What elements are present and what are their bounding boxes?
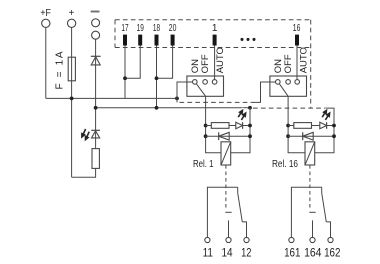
relay 1 subcircuit (193, 96, 252, 259)
svg-text:11: 11 (203, 247, 213, 260)
wire terminal 19 (125, 46, 140, 79)
contact 12 plate (242, 222, 246, 238)
resistor R2 body (211, 123, 229, 129)
svg-text:14: 14 (221, 247, 233, 260)
wire freewheel diode row relay 16 (288, 135, 334, 137)
svg-text:AUTO: AUTO (299, 47, 310, 73)
svg-text:19: 19 (137, 23, 144, 34)
wire contact 161 rail (291, 187, 321, 237)
LED3 emission arrow b (325, 113, 330, 120)
terminal 11 (205, 237, 210, 242)
svg-text:AUTO: AUTO (215, 47, 226, 73)
svg-text:+: + (68, 8, 74, 19)
wire relay 16 left branch (288, 126, 305, 153)
wire terminal 16 to AUTO (296, 46, 298, 80)
wire ON rail to S2 ON (255, 82, 276, 102)
junction relay 16 left resistor row (286, 124, 290, 128)
junction relay 1 left diode row (204, 134, 208, 138)
junction relay 1 left resistor row (204, 124, 208, 128)
wire relay 1 right branch (231, 108, 250, 153)
LED1 triangle (92, 131, 100, 138)
contact moving arm relay 16 (322, 193, 327, 222)
junction diode line to bus2 (94, 106, 98, 110)
svg-text:OFF: OFF (283, 54, 294, 73)
wire contact 11 rail (207, 187, 237, 237)
junction relay 16 right resistor row (332, 124, 336, 128)
wire freewheel diode row (206, 135, 250, 137)
terminal 1 pin (213, 35, 217, 46)
wire +F down (45, 28, 47, 99)
continuation dots (240, 38, 255, 41)
terminal 12 (244, 237, 249, 242)
svg-text:+F: +F (40, 8, 51, 19)
svg-text:1: 1 (212, 23, 218, 34)
terminal 17 pin (123, 35, 127, 46)
relay K16 coil (305, 142, 315, 165)
fuse F1 body (68, 57, 75, 81)
wire minus down (95, 39, 97, 148)
svg-text:164: 164 (304, 247, 322, 260)
wire contact 164 (312, 220, 314, 237)
LED3 cathode bar (326, 122, 328, 129)
wire terminal 20 (157, 46, 173, 79)
wire terminal 18 (156, 46, 158, 108)
dashed actuator linkage K16 (309, 165, 311, 210)
wire resistor row left relay 16 (288, 125, 294, 127)
wire bus1 to S1 ON (177, 82, 193, 98)
LED3 emission arrow a (322, 110, 330, 120)
svg-text:20: 20 (169, 23, 177, 34)
relay 16 subcircuit (272, 96, 340, 259)
terminal minus lower (92, 31, 100, 39)
junction fuse to bus1 (70, 97, 74, 101)
LED2 emission arrow a (238, 110, 246, 120)
relay K1 coil (221, 142, 231, 165)
wire minus rail corner to relay 16 (315, 108, 334, 153)
LED3 triangle (320, 122, 327, 129)
LED2 cathode bar (242, 122, 244, 129)
LED2 emission arrow b (241, 113, 246, 120)
svg-text:161: 161 (284, 247, 300, 260)
svg-text:12: 12 (241, 247, 251, 260)
wire resistor to LED2 (229, 125, 236, 127)
contact 164 plate (309, 211, 315, 213)
junction 17-19 (123, 76, 127, 80)
wire inside fuse (71, 57, 73, 81)
dashed enclosure terminal row edge (115, 47, 311, 49)
wire LED2 to right branch (243, 125, 250, 127)
terminal 20 pin (171, 35, 175, 46)
wire S2 wiper down (287, 96, 289, 125)
contact 162 plate (326, 222, 330, 238)
wire + down through fuse to bottom (71, 28, 73, 178)
terminal 14 (226, 237, 231, 242)
dashed minus continuation rail (253, 107, 326, 109)
terminal 19 pin (138, 35, 142, 46)
contact 14 plate (225, 211, 231, 213)
switch S2 AUTO contact (295, 80, 300, 85)
wire relay 1 left branch (206, 126, 221, 153)
wire bus1 plus rail (46, 97, 177, 99)
junction relay 1 right diode row (248, 134, 252, 138)
junction relay 1 right bus2 (248, 106, 252, 110)
relay K1 coil diagonal (221, 142, 231, 165)
contact arm pivot stub relay 16 (321, 187, 323, 193)
switch S1 OFF contact (203, 80, 208, 85)
dashed ON continuation rail (180, 101, 255, 103)
junction relay 16 right diode row (332, 134, 336, 138)
diode D1 cathode bar (91, 55, 101, 57)
junction 18 to bus2 (155, 106, 159, 110)
diode D2 triangle (219, 132, 230, 140)
terminal minus upper (92, 19, 100, 27)
LED1 emission arrow b (85, 132, 89, 141)
svg-text:162: 162 (324, 247, 340, 260)
wire S1 wiper down (205, 96, 207, 125)
switch S2 OFF contact (286, 80, 291, 85)
resistor R3 body (294, 123, 312, 129)
junction 18-20 (155, 76, 159, 80)
node minus label (91, 11, 100, 13)
contact moving arm (238, 193, 243, 222)
switch S1 AUTO contact (212, 80, 217, 85)
wire contact 14 (228, 220, 230, 237)
switch S2 ON contact (276, 80, 281, 85)
junction relay 1 right resistor row (248, 124, 252, 128)
svg-text:ON: ON (273, 59, 284, 73)
dashed enclosure right edge (310, 20, 312, 108)
junction bus1 end (175, 97, 179, 101)
svg-text:F = 1A: F = 1A (55, 51, 66, 89)
LED1 cathode bar (91, 129, 100, 131)
resistor R1 body (92, 149, 99, 169)
wire ON rail tick (176, 98, 178, 102)
wire bottom left corner (72, 168, 96, 177)
wire LED3 to right branch (327, 125, 334, 127)
terminal 18 pin (155, 35, 159, 46)
svg-text:Rel. 16: Rel. 16 (272, 158, 298, 170)
wire terminal 1 to AUTO (214, 46, 216, 80)
svg-text:18: 18 (153, 23, 160, 34)
terminal 162 (328, 237, 333, 242)
svg-text:16: 16 (293, 23, 301, 34)
switch S1 ON contact (193, 80, 198, 85)
switch S1 box (187, 76, 224, 96)
switch S2 box (270, 76, 307, 96)
diode D1 triangle (91, 57, 100, 65)
dashed enclosure left edge (114, 20, 116, 48)
svg-text:OFF: OFF (200, 54, 211, 73)
terminal 16 pin (295, 35, 299, 46)
wire resistor row left (206, 125, 212, 127)
terminal + (67, 19, 75, 27)
contact arm pivot stub (237, 187, 239, 193)
LED1 emission arrow a (82, 129, 86, 138)
relay K16 coil diagonal (305, 142, 315, 165)
junction relay 16 left diode row (286, 134, 290, 138)
terminal +F (42, 19, 50, 27)
switch S1 wiper (196, 84, 205, 97)
diode D3 triangle (303, 132, 314, 140)
wire bus2 minus rail (96, 107, 250, 109)
switch S2 wiper (279, 84, 288, 97)
LED2 triangle (236, 122, 243, 129)
wire resistor to LED3 (312, 125, 320, 127)
svg-text:17: 17 (121, 23, 128, 34)
diode D3 cathode bar (302, 132, 304, 140)
svg-text:ON: ON (190, 59, 201, 73)
terminal 161 (289, 237, 294, 242)
diode D2 cathode bar (218, 132, 220, 140)
dashed enclosure top edge (115, 19, 311, 21)
dashed actuator linkage K1 (225, 165, 227, 210)
wire terminal 17 (124, 46, 126, 99)
svg-text:Rel. 1: Rel. 1 (193, 158, 214, 170)
terminal 164 (310, 237, 315, 242)
